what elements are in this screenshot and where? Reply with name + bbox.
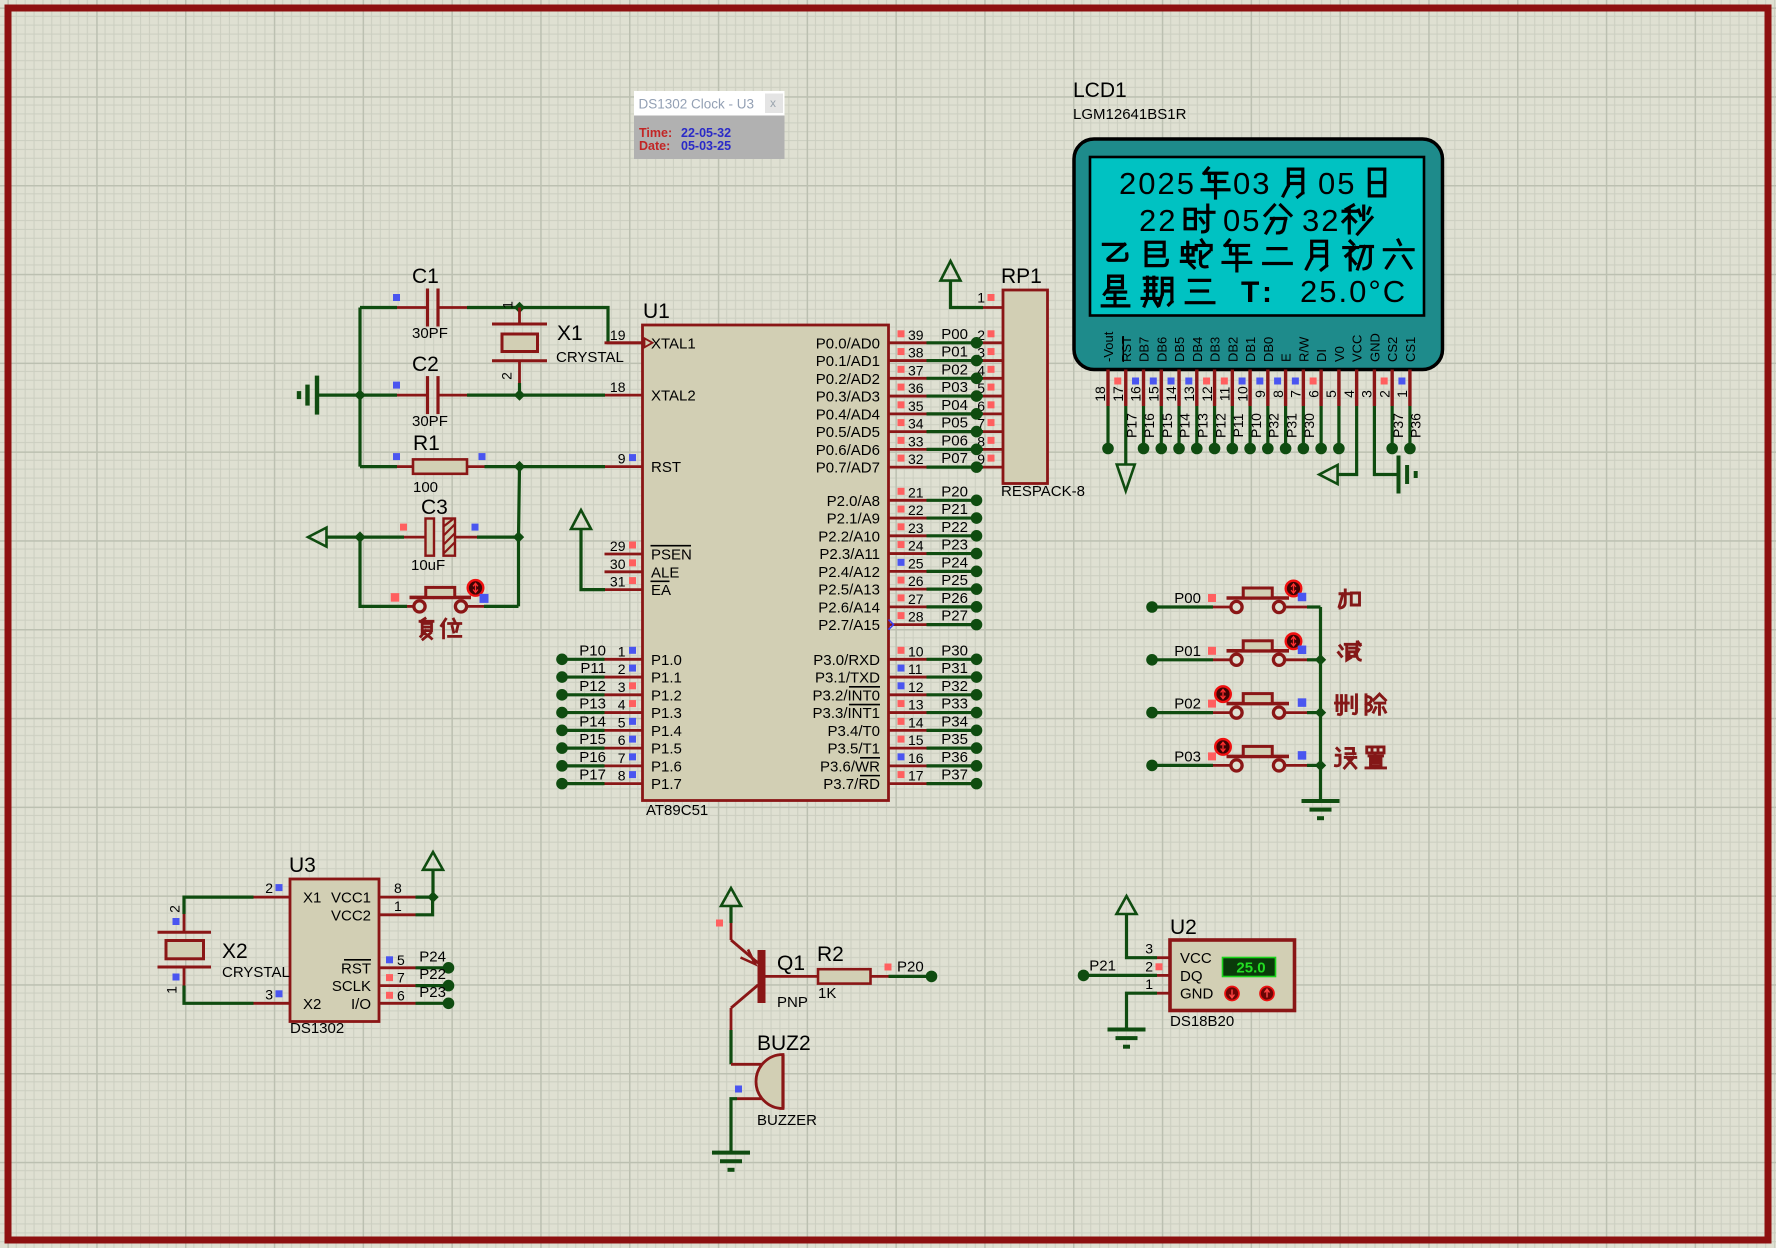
svg-text:8: 8 — [1270, 390, 1286, 398]
svg-text:P03: P03 — [1174, 748, 1201, 765]
svg-text:P01: P01 — [941, 344, 968, 361]
svg-text:EA: EA — [651, 582, 671, 599]
svg-text:P10: P10 — [1248, 413, 1264, 438]
svg-text:6: 6 — [397, 987, 405, 1003]
svg-text:DQ: DQ — [1180, 968, 1203, 985]
svg-text:P1.0: P1.0 — [651, 652, 682, 669]
X2 rotated pin numbers and squares — [164, 905, 183, 994]
svg-text:28: 28 — [908, 609, 924, 625]
lcd LCD1 body — [1074, 139, 1443, 370]
BUZ2 value label BUZZER — [757, 1112, 817, 1129]
svg-text:P2.1/A9: P2.1/A9 — [827, 511, 880, 528]
svg-text:P24: P24 — [941, 554, 968, 571]
svg-text:C3: C3 — [421, 496, 448, 519]
svg-text:3: 3 — [1359, 390, 1375, 398]
U2 reference label — [1170, 916, 1197, 939]
svg-text:P33: P33 — [941, 696, 968, 713]
power arrow (Q1 emitter) — [721, 888, 741, 923]
svg-text:P20: P20 — [897, 959, 924, 976]
svg-text:3: 3 — [618, 679, 626, 695]
svg-text:38: 38 — [908, 345, 924, 361]
svg-text:P3.4/T0: P3.4/T0 — [827, 723, 880, 740]
svg-text:18: 18 — [610, 379, 626, 395]
svg-text:BUZ2: BUZ2 — [757, 1032, 811, 1055]
svg-text:P36: P36 — [1408, 413, 1424, 438]
C2 pin state square — [393, 382, 400, 389]
svg-text:10: 10 — [1234, 386, 1250, 402]
label 设置 — [1336, 747, 1386, 768]
svg-text:18: 18 — [1092, 386, 1108, 402]
svg-text:DI: DI — [1314, 349, 1329, 362]
svg-text:P2.2/A10: P2.2/A10 — [818, 528, 880, 545]
svg-text:RST: RST — [1119, 336, 1134, 362]
wires P3 port with node labels P30-P37 — [927, 642, 983, 789]
R2 value label 1K — [818, 985, 836, 1002]
svg-text:DS18B20: DS18B20 — [1170, 1013, 1234, 1030]
svg-text:16: 16 — [908, 750, 924, 766]
svg-text:AT89C51: AT89C51 — [646, 802, 708, 819]
svg-text:05: 05 — [1318, 166, 1356, 201]
svg-text:DS1302: DS1302 — [290, 1020, 344, 1037]
node P01 — [1146, 643, 1201, 666]
wire RST vertical bus — [519, 467, 520, 607]
RP1 pin stubs — [983, 308, 1003, 468]
U1 left pin names — [651, 335, 696, 793]
svg-text:P36: P36 — [941, 749, 968, 766]
wire buzzer to ground — [731, 1099, 762, 1153]
capacitor C1 — [428, 289, 439, 327]
wire C2 row — [319, 394, 605, 397]
svg-text:RP1: RP1 — [1001, 265, 1042, 288]
svg-text:6: 6 — [618, 732, 626, 748]
svg-text:P06: P06 — [941, 432, 968, 449]
svg-text:03: 03 — [1233, 166, 1271, 201]
Q1 value label PNP — [777, 994, 808, 1011]
svg-text:1: 1 — [394, 898, 402, 914]
label 减 — [1339, 642, 1361, 660]
svg-text:RESPACK-8: RESPACK-8 — [1001, 483, 1085, 500]
button P03 pin state squares — [1208, 751, 1306, 760]
svg-text:E: E — [1279, 353, 1294, 362]
svg-text:2: 2 — [1145, 958, 1153, 974]
BUZ2 reference label — [757, 1032, 811, 1055]
RP1 value label RESPACK-8 — [1001, 483, 1085, 500]
svg-text:30PF: 30PF — [412, 325, 448, 342]
svg-text:30PF: 30PF — [412, 413, 448, 430]
svg-text:P0.6/AD6: P0.6/AD6 — [816, 442, 880, 459]
svg-text:2: 2 — [167, 905, 183, 913]
reset button pin state squares — [391, 593, 489, 603]
svg-text:2: 2 — [1376, 390, 1392, 398]
X1 value label CRYSTAL — [556, 349, 624, 366]
node P00 — [1146, 590, 1201, 613]
rtc U3 DS1302 body — [290, 879, 379, 1022]
svg-text:P03: P03 — [941, 379, 968, 396]
power arrow left (LCD pin 4) — [1319, 465, 1337, 484]
svg-text:P37: P37 — [941, 767, 968, 784]
svg-text:P31: P31 — [1283, 413, 1299, 438]
svg-text:P16: P16 — [1141, 413, 1157, 438]
power arrow (RP1 pin 1) — [941, 261, 984, 308]
svg-text:VCC2: VCC2 — [331, 907, 371, 924]
svg-text:7: 7 — [397, 970, 405, 986]
U1 XTAL1 pin arrow marker — [645, 338, 653, 347]
ground arrow (LCD pin 17) — [1117, 465, 1135, 492]
svg-text:x: x — [770, 96, 776, 110]
svg-text:17: 17 — [908, 768, 924, 784]
svg-text:P00: P00 — [941, 326, 968, 343]
wire button row P00 — [1152, 605, 1321, 608]
RP1 pin numbers — [977, 290, 994, 468]
svg-text:P13: P13 — [1195, 413, 1211, 438]
push button P02 — [1215, 686, 1289, 718]
C1 value label 30PF — [412, 325, 448, 342]
LCD wire drops with labels — [1102, 406, 1423, 475]
svg-text:VCC: VCC — [1350, 335, 1365, 362]
svg-text:1: 1 — [500, 301, 516, 309]
svg-text:GND: GND — [1180, 986, 1214, 1003]
svg-text:31: 31 — [610, 574, 626, 590]
svg-text:P3.1/TXD: P3.1/TXD — [815, 670, 880, 687]
svg-text:XTAL1: XTAL1 — [651, 335, 696, 352]
svg-text:P32: P32 — [941, 678, 968, 695]
svg-text:12: 12 — [1199, 386, 1215, 402]
X1 reference label — [557, 322, 583, 345]
svg-text:P0.2/AD2: P0.2/AD2 — [816, 371, 880, 388]
lcd text line 2: 22时05分32秒 — [1139, 203, 1372, 238]
svg-text:1: 1 — [618, 643, 626, 659]
svg-text:R2: R2 — [817, 943, 844, 966]
U1 reference label — [643, 300, 670, 323]
svg-text:25.0°C: 25.0°C — [1300, 274, 1407, 309]
svg-text:P1.5: P1.5 — [651, 741, 682, 758]
svg-text:4: 4 — [1341, 390, 1357, 398]
svg-text:P3.3/INT1: P3.3/INT1 — [812, 705, 880, 722]
svg-text:P15: P15 — [1159, 413, 1175, 438]
wires P1 port with node labels P10-P17 — [556, 642, 606, 789]
U3 reference label — [289, 854, 316, 877]
wire U3 VCC1/VCC2 — [416, 897, 434, 915]
crystal X2 — [158, 932, 212, 967]
svg-text:1: 1 — [1145, 976, 1153, 992]
U2 pin stubs — [1157, 958, 1170, 994]
wire reset button row — [360, 537, 519, 606]
popup window DS1302 Clock - U3 — [634, 91, 785, 159]
svg-text:DB2: DB2 — [1225, 337, 1240, 362]
svg-text:P2.3/A11: P2.3/A11 — [819, 546, 880, 563]
wires P2 port with node labels P20-P27 — [927, 483, 983, 630]
U3 value label DS1302 — [290, 1020, 344, 1037]
svg-text:P00: P00 — [1174, 590, 1201, 607]
svg-text:P20: P20 — [941, 483, 968, 500]
svg-text:19: 19 — [610, 327, 626, 343]
svg-text:15: 15 — [1145, 386, 1161, 402]
svg-text:14: 14 — [1163, 386, 1179, 402]
svg-text:35: 35 — [908, 398, 924, 414]
svg-text:5: 5 — [1323, 390, 1339, 398]
svg-text:P01: P01 — [1174, 643, 1201, 660]
power arrow (left, C3 row) — [308, 528, 327, 547]
C3 pin state squares — [400, 524, 479, 531]
label 删除 — [1336, 694, 1386, 714]
svg-text:5: 5 — [618, 714, 626, 730]
capacitor C2 — [428, 376, 439, 414]
junction node bus row P02 — [1315, 707, 1326, 718]
wire crystal X2 to U3 X2 — [184, 967, 254, 1003]
push button P03 — [1215, 739, 1289, 771]
U1 P2.7 pin marker — [889, 620, 894, 630]
svg-text:DB1: DB1 — [1243, 337, 1258, 362]
svg-text:1K: 1K — [818, 985, 836, 1002]
svg-text:P23: P23 — [941, 537, 968, 554]
svg-text:05-03-25: 05-03-25 — [681, 139, 731, 153]
svg-text:CS2: CS2 — [1385, 337, 1400, 362]
svg-text:P2.7/A15: P2.7/A15 — [818, 617, 880, 634]
svg-text:14: 14 — [908, 714, 924, 730]
button P02 pin state squares — [1208, 698, 1306, 707]
ground (U2) — [1108, 1030, 1146, 1047]
wire button common bus — [1319, 607, 1322, 801]
junction node U3 VCC — [427, 891, 438, 902]
wire U2 GND to ground — [1127, 993, 1158, 1029]
svg-text:P3.2/INT0: P3.2/INT0 — [812, 687, 880, 704]
svg-text:P3.0/RXD: P3.0/RXD — [813, 652, 880, 669]
svg-text:V0: V0 — [1332, 346, 1347, 362]
push button P00 — [1227, 581, 1302, 613]
svg-text:T:: T: — [1241, 276, 1278, 309]
wire R1 row — [360, 465, 605, 468]
svg-text:39: 39 — [908, 327, 924, 343]
buzzer BUZ2 — [756, 1055, 783, 1109]
svg-text:PNP: PNP — [777, 994, 808, 1011]
svg-text:P3.7/RD: P3.7/RD — [823, 776, 880, 793]
U3 pin names — [303, 890, 371, 1013]
U2 up/down buttons — [1225, 987, 1274, 1001]
svg-text:5: 5 — [397, 952, 405, 968]
C1 reference label — [412, 265, 439, 288]
svg-text:RST: RST — [651, 459, 681, 476]
svg-text:22: 22 — [908, 502, 924, 518]
U2 display 25.0 — [1223, 958, 1276, 977]
RP1 reference label — [1001, 265, 1042, 288]
svg-text:P0.7/AD7: P0.7/AD7 — [816, 460, 880, 477]
svg-text:P34: P34 — [941, 713, 968, 730]
svg-text:36: 36 — [908, 380, 924, 396]
Q1 reference label — [777, 952, 805, 975]
svg-text:P31: P31 — [941, 660, 968, 677]
X1 pin number 2 (rotated) — [499, 372, 515, 380]
svg-text:P16: P16 — [579, 749, 606, 766]
R2 reference label — [817, 943, 844, 966]
svg-text:XTAL2: XTAL2 — [651, 388, 696, 405]
U2 value label DS18B20 — [1170, 1013, 1234, 1030]
svg-text:21: 21 — [908, 484, 924, 500]
svg-text:P3.6/WR: P3.6/WR — [820, 758, 880, 775]
svg-text:8: 8 — [394, 880, 402, 896]
resistor pack RP1 body — [1003, 290, 1048, 484]
svg-text:9: 9 — [1252, 390, 1268, 398]
svg-text:-Vout: -Vout — [1101, 331, 1116, 362]
svg-text:P37: P37 — [1390, 413, 1406, 438]
svg-text:C2: C2 — [412, 353, 439, 376]
node P02 — [1146, 696, 1201, 719]
wire button row P03 — [1152, 764, 1321, 767]
svg-text:R/W: R/W — [1296, 336, 1311, 362]
svg-text:P27: P27 — [941, 608, 968, 625]
wire left bus C1-C2-R1 — [358, 308, 361, 467]
C3 value label 10uF — [411, 557, 445, 574]
push button P01 — [1227, 634, 1302, 666]
svg-text:P2.5/A13: P2.5/A13 — [818, 582, 880, 599]
svg-text:9: 9 — [618, 451, 626, 467]
svg-text:P04: P04 — [941, 397, 968, 414]
svg-text:24: 24 — [908, 538, 924, 554]
LCD pin numbers (rotated) — [1092, 378, 1410, 402]
node P03 — [1146, 748, 1201, 771]
svg-text:37: 37 — [908, 362, 924, 378]
svg-text:11: 11 — [1217, 387, 1233, 402]
svg-text:P1.2: P1.2 — [651, 687, 682, 704]
label 复位 — [420, 618, 461, 639]
svg-text:P14: P14 — [1177, 413, 1193, 438]
svg-text:P21: P21 — [941, 501, 968, 518]
svg-text:26: 26 — [908, 573, 924, 589]
svg-text:3: 3 — [1145, 941, 1153, 957]
svg-text:P30: P30 — [941, 642, 968, 659]
svg-text:32: 32 — [908, 451, 924, 467]
C1 pin state square — [393, 294, 400, 301]
svg-text:DB0: DB0 — [1261, 337, 1276, 362]
svg-text:P23: P23 — [419, 984, 446, 1001]
lcd text line 4: 星期三 T: 25.0°C — [1102, 274, 1407, 309]
R1 reference label — [413, 432, 440, 455]
push button (reset) — [410, 580, 484, 612]
svg-text:P10: P10 — [579, 642, 606, 659]
svg-text:C1: C1 — [412, 265, 439, 288]
junction node C3 left — [354, 531, 365, 542]
svg-text:2: 2 — [265, 880, 273, 896]
wire XTAL1 net — [520, 308, 644, 343]
svg-text:P24: P24 — [419, 948, 446, 965]
svg-text:2025: 2025 — [1119, 166, 1196, 201]
svg-text:R1: R1 — [413, 432, 440, 455]
svg-text:P1.6: P1.6 — [651, 758, 682, 775]
ground symbol (left of C2) — [299, 376, 317, 415]
svg-text:34: 34 — [908, 416, 924, 432]
ground (button bus) — [1302, 801, 1340, 818]
X2 value label CRYSTAL — [222, 964, 290, 981]
power arrow (U2 VCC) — [1117, 896, 1158, 958]
R1 value label 100 — [413, 479, 438, 496]
svg-text:P21: P21 — [1089, 957, 1116, 974]
wire Q1 base to R2 — [766, 975, 819, 978]
svg-text:P15: P15 — [579, 731, 606, 748]
button P00 pin state squares — [1208, 593, 1306, 602]
svg-text:P3.5/T1: P3.5/T1 — [827, 741, 880, 758]
node P21 — [1078, 957, 1116, 981]
power arrow (U3 VCC) — [423, 852, 443, 897]
svg-text:Date:: Date: — [639, 139, 670, 153]
power arrow (EA pin) — [571, 510, 605, 590]
capacitor C3 (electrolytic) — [426, 519, 456, 556]
svg-text:BUZZER: BUZZER — [757, 1112, 817, 1129]
LCD pin stubs — [1108, 370, 1410, 407]
wires U3 RST/SCLK/IO with node labels — [416, 948, 455, 1009]
U1 left pin numbers — [610, 327, 636, 784]
junction node C2/ground — [354, 389, 365, 400]
svg-text:13: 13 — [1181, 386, 1197, 402]
svg-text:P0.4/AD4: P0.4/AD4 — [816, 406, 880, 423]
svg-text:ALE: ALE — [651, 564, 679, 581]
junction node R1/RST — [514, 461, 525, 472]
svg-text:Time:: Time: — [639, 126, 672, 140]
wire button row P02 — [1152, 711, 1321, 714]
svg-text:SCLK: SCLK — [332, 978, 371, 995]
junction node bus row P03 — [1315, 760, 1326, 771]
C2 value label 30PF — [412, 413, 448, 430]
U2 pin names — [1180, 950, 1214, 1003]
label 加 — [1339, 590, 1359, 608]
svg-text:1: 1 — [1394, 390, 1410, 398]
junction node at X1 top — [514, 302, 525, 313]
svg-text:P13: P13 — [579, 696, 606, 713]
U2 pin numbers — [1145, 941, 1162, 993]
wire U2 DQ to node P21 — [1088, 974, 1157, 977]
svg-text:P02: P02 — [941, 361, 968, 378]
svg-text:X1: X1 — [557, 322, 583, 345]
C3 reference label — [421, 496, 448, 519]
svg-text:2: 2 — [618, 661, 626, 677]
svg-text:22: 22 — [1139, 203, 1177, 238]
lcd text line 3: 乙巳蛇年二月初六 — [1103, 240, 1413, 271]
svg-text:25: 25 — [908, 555, 924, 571]
svg-text:P1.3: P1.3 — [651, 705, 682, 722]
svg-text:P2.0/A8: P2.0/A8 — [827, 493, 880, 510]
svg-text:23: 23 — [908, 520, 924, 536]
svg-text:U2: U2 — [1170, 916, 1197, 939]
svg-text:33: 33 — [908, 433, 924, 449]
svg-text:27: 27 — [908, 591, 924, 607]
svg-text:RST: RST — [341, 960, 371, 977]
svg-text:12: 12 — [908, 679, 924, 695]
junction node bus row P01 — [1315, 654, 1326, 665]
LCD1 value label LGM12641BS1R — [1073, 106, 1187, 123]
ground (LCD pin 3, sideways) — [1399, 456, 1416, 494]
temp sensor U2 DS18B20 body — [1170, 940, 1295, 1011]
svg-text:P25: P25 — [941, 572, 968, 589]
svg-text:DB3: DB3 — [1208, 337, 1223, 362]
svg-text:P17: P17 — [1123, 413, 1139, 438]
svg-text:P14: P14 — [579, 713, 606, 730]
svg-text:2: 2 — [499, 372, 515, 380]
C2 reference label — [412, 353, 439, 376]
svg-text:DB6: DB6 — [1154, 337, 1169, 362]
svg-text:15: 15 — [908, 732, 924, 748]
svg-text:P30: P30 — [1301, 413, 1317, 438]
svg-text:P26: P26 — [941, 590, 968, 607]
svg-text:Q1: Q1 — [777, 952, 805, 975]
svg-text:6: 6 — [1305, 390, 1321, 398]
svg-text:P0.5/AD5: P0.5/AD5 — [816, 424, 880, 441]
svg-text:22-05-32: 22-05-32 — [681, 126, 731, 140]
svg-text:32: 32 — [1302, 203, 1340, 238]
svg-text:10: 10 — [908, 643, 924, 659]
svg-text:3: 3 — [265, 986, 273, 1002]
svg-text:GND: GND — [1367, 333, 1382, 362]
svg-text:P0.0/AD0: P0.0/AD0 — [816, 335, 880, 352]
svg-text:17: 17 — [1110, 386, 1126, 402]
svg-text:I/O: I/O — [351, 996, 371, 1013]
